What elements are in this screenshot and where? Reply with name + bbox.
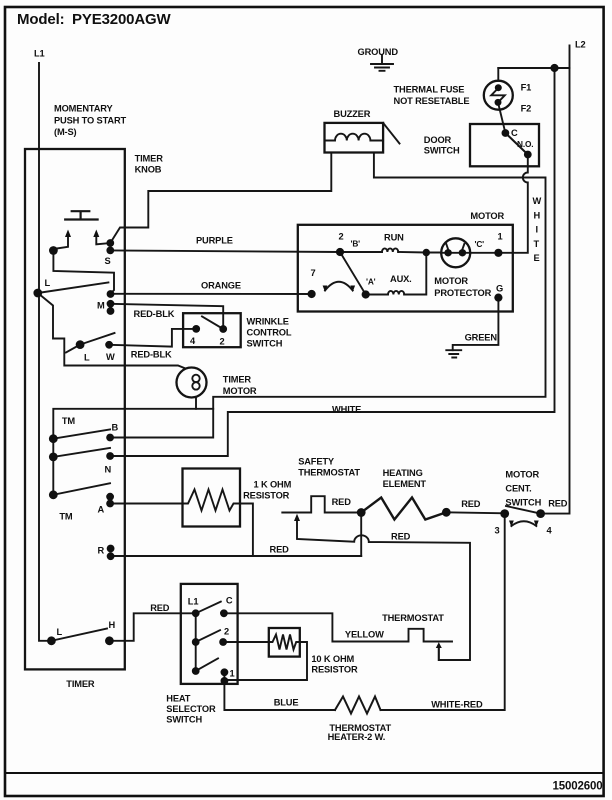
- svg-text:E: E: [534, 253, 540, 263]
- svg-text:CONTROL: CONTROL: [247, 328, 292, 338]
- svg-text:Model:: Model:: [17, 11, 64, 28]
- svg-text:TIMER: TIMER: [223, 375, 252, 385]
- svg-text:L1: L1: [34, 49, 45, 59]
- svg-text:HEATING: HEATING: [383, 468, 423, 478]
- svg-text:G: G: [496, 284, 503, 294]
- svg-text:SWITCH: SWITCH: [247, 339, 283, 349]
- svg-text:THERMOSTAT: THERMOSTAT: [298, 468, 360, 478]
- svg-text:2: 2: [220, 337, 225, 347]
- svg-text:3: 3: [495, 526, 500, 536]
- svg-text:A: A: [98, 505, 105, 515]
- svg-text:C: C: [511, 128, 518, 138]
- svg-text:MOTOR: MOTOR: [470, 211, 504, 221]
- svg-text:F2: F2: [521, 104, 532, 114]
- svg-text:M: M: [97, 301, 105, 311]
- svg-text:TIMER: TIMER: [66, 679, 95, 689]
- svg-text:ORANGE: ORANGE: [201, 281, 241, 291]
- svg-text:BLUE: BLUE: [274, 698, 299, 708]
- svg-text:THERMAL FUSE: THERMAL FUSE: [394, 85, 465, 95]
- svg-text:PURPLE: PURPLE: [196, 236, 233, 246]
- svg-text:N.O.: N.O.: [517, 139, 533, 149]
- svg-text:RESISTOR: RESISTOR: [243, 491, 290, 501]
- svg-text:PYE3200AGW: PYE3200AGW: [72, 11, 172, 28]
- svg-text:H: H: [109, 620, 116, 630]
- svg-text:SWITCH: SWITCH: [505, 498, 541, 508]
- svg-text:L1: L1: [188, 597, 199, 607]
- svg-text:'B': 'B': [351, 239, 361, 249]
- svg-text:1: 1: [498, 232, 503, 242]
- svg-text:RED: RED: [332, 497, 352, 507]
- svg-text:AUX.: AUX.: [390, 274, 412, 284]
- svg-text:SELECTOR: SELECTOR: [166, 704, 216, 714]
- svg-text:'A': 'A': [366, 277, 376, 287]
- svg-text:SWITCH: SWITCH: [424, 146, 460, 156]
- svg-text:THERMOSTAT: THERMOSTAT: [382, 613, 444, 623]
- svg-text:S: S: [105, 256, 111, 266]
- svg-text:SAFETY: SAFETY: [298, 457, 335, 467]
- svg-text:HEATER-2 W.: HEATER-2 W.: [328, 732, 386, 742]
- svg-text:RED: RED: [548, 499, 568, 509]
- svg-text:W: W: [106, 352, 115, 362]
- svg-text:WHITE-RED: WHITE-RED: [431, 700, 483, 710]
- svg-text:F1: F1: [521, 83, 532, 93]
- svg-text:RED-BLK: RED-BLK: [131, 350, 172, 360]
- svg-text:L: L: [45, 278, 51, 288]
- svg-text:I: I: [536, 225, 538, 235]
- svg-text:PUSH TO START: PUSH TO START: [54, 116, 127, 126]
- svg-text:C: C: [226, 596, 233, 606]
- svg-text:2: 2: [224, 627, 229, 637]
- svg-text:MOTOR: MOTOR: [223, 386, 257, 396]
- svg-text:BUZZER: BUZZER: [334, 109, 371, 119]
- svg-text:ELEMENT: ELEMENT: [383, 479, 427, 489]
- svg-text:WRINKLE: WRINKLE: [247, 317, 289, 327]
- svg-text:KNOB: KNOB: [135, 165, 162, 175]
- svg-text:RED: RED: [461, 499, 481, 509]
- svg-text:RED: RED: [270, 545, 290, 555]
- svg-text:1 K OHM: 1 K OHM: [254, 480, 292, 490]
- svg-text:CENT.: CENT.: [505, 484, 531, 494]
- svg-text:TM: TM: [62, 416, 76, 426]
- svg-text:L: L: [57, 627, 63, 637]
- svg-text:SWITCH: SWITCH: [166, 715, 202, 725]
- svg-text:L2: L2: [575, 40, 586, 50]
- svg-text:TIMER: TIMER: [135, 154, 164, 164]
- svg-text:PROTECTOR: PROTECTOR: [434, 288, 491, 298]
- svg-text:'C': 'C': [475, 239, 485, 249]
- svg-text:1: 1: [230, 669, 235, 679]
- svg-text:MOTOR: MOTOR: [505, 470, 539, 480]
- svg-text:H: H: [534, 211, 541, 221]
- svg-text:MOTOR: MOTOR: [434, 276, 468, 286]
- svg-text:RESISTOR: RESISTOR: [311, 665, 358, 675]
- svg-text:GREEN: GREEN: [465, 333, 498, 343]
- svg-text:GROUND: GROUND: [358, 47, 399, 57]
- svg-text:TM: TM: [59, 512, 73, 522]
- svg-text:DOOR: DOOR: [424, 135, 452, 145]
- svg-text:RED: RED: [391, 532, 411, 542]
- svg-text:RED-BLK: RED-BLK: [134, 309, 175, 319]
- svg-text:B: B: [112, 423, 119, 433]
- svg-text:R: R: [98, 546, 105, 556]
- svg-text:MOMENTARY: MOMENTARY: [54, 104, 114, 114]
- svg-text:2: 2: [339, 232, 344, 242]
- svg-text:RUN: RUN: [384, 233, 404, 243]
- svg-text:7: 7: [311, 268, 316, 278]
- svg-text:WHITE: WHITE: [332, 405, 361, 415]
- svg-text:HEAT: HEAT: [166, 694, 190, 704]
- svg-text:(M-S): (M-S): [54, 127, 77, 137]
- svg-text:10 K OHM: 10 K OHM: [311, 654, 354, 664]
- svg-text:T: T: [534, 239, 540, 249]
- svg-text:W: W: [533, 196, 542, 206]
- svg-text:NOT RESETABLE: NOT RESETABLE: [394, 96, 470, 106]
- svg-text:RED: RED: [150, 603, 170, 613]
- svg-text:L: L: [84, 353, 90, 363]
- svg-text:N: N: [105, 465, 112, 475]
- svg-text:15002600: 15002600: [553, 781, 603, 793]
- svg-text:YELLOW: YELLOW: [345, 630, 384, 640]
